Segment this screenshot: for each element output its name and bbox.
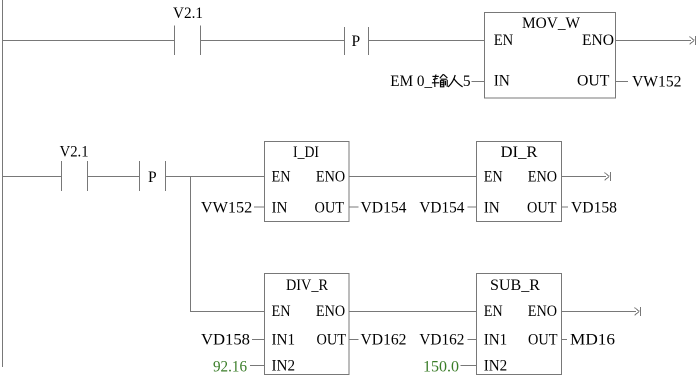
block DIV_R box — [265, 274, 350, 375]
svg-text:VW152: VW152 — [201, 200, 252, 217]
wire VW152 tick to I_DI IN — [254, 206, 265, 208]
arrow rung3 open head with bar — [635, 307, 641, 316]
wire contact V2.1 to contact P rung2 — [88, 176, 140, 178]
svg-text:IN: IN — [484, 200, 500, 217]
wire branch vertical down to rung3 — [190, 177, 192, 312]
block I_DI box — [265, 142, 350, 222]
wire I_DI OUT tick to VD154 — [349, 206, 359, 208]
svg-text:VW152: VW152 — [632, 74, 682, 91]
wire DIV_R ENO to SUB_R EN — [349, 311, 476, 313]
wire SUB_R OUT tick to MD16 — [562, 339, 568, 341]
svg-text:P: P — [352, 33, 361, 50]
wire VD158 tick to DIV_R IN1 — [252, 339, 265, 341]
wire I_DI ENO to DI_R EN — [349, 176, 476, 178]
svg-text:IN1: IN1 — [272, 332, 296, 349]
contact P rung1 (positive edge) — [345, 27, 369, 55]
wire contact P to I_DI EN with branch node — [166, 176, 265, 178]
svg-text:EN: EN — [494, 32, 514, 49]
svg-text:DI_R: DI_R — [501, 144, 539, 161]
contact P rung2 (positive edge) — [140, 161, 166, 191]
svg-text:VD154: VD154 — [361, 200, 407, 217]
wire rung1 rail to contact V2.1 — [2, 40, 174, 42]
wire DIV_R OUT tick to VD162 — [349, 339, 359, 341]
svg-text:VD162: VD162 — [361, 332, 407, 349]
svg-text:EN: EN — [272, 303, 291, 320]
svg-text:MOV_W: MOV_W — [522, 15, 580, 32]
svg-text:EM 0_: EM 0_ — [390, 73, 432, 90]
svg-text:IN1: IN1 — [484, 332, 508, 349]
block DI_R box — [477, 142, 562, 222]
wire contact P to MOV_W EN — [369, 40, 485, 42]
svg-text:ENO: ENO — [316, 303, 345, 320]
svg-text:EN: EN — [484, 169, 503, 186]
svg-text:5: 5 — [463, 73, 471, 90]
svg-text:V2.1: V2.1 — [60, 144, 89, 161]
wire EM 0_input5 tick to MOV_W IN — [472, 81, 485, 83]
wire 150.0 tick to SUB_R IN2 — [461, 365, 477, 367]
svg-text:150.0: 150.0 — [423, 359, 459, 376]
svg-text:VD162: VD162 — [419, 332, 464, 349]
block SUB_R box — [477, 274, 562, 375]
svg-text:VD158: VD158 — [201, 332, 250, 349]
arrow rung2 open head with bar — [605, 172, 611, 181]
arrow rung1 open head with bar — [690, 36, 696, 45]
svg-text:VD154: VD154 — [419, 200, 464, 217]
svg-text:MD16: MD16 — [570, 332, 615, 349]
svg-text:EN: EN — [484, 303, 503, 320]
svg-text:OUT: OUT — [317, 332, 347, 349]
wire VD162 tick to SUB_R IN1 — [468, 339, 477, 341]
svg-text:ENO: ENO — [316, 169, 345, 186]
glyph CJK shu (input) — [432, 74, 448, 87]
svg-text:SUB_R: SUB_R — [490, 277, 541, 294]
svg-text:V2.1: V2.1 — [173, 5, 203, 22]
wire SUB_R ENO to arrow — [562, 311, 637, 313]
svg-text:OUT: OUT — [577, 73, 610, 90]
contact V2.1 rung2 — [62, 161, 88, 191]
svg-text:OUT: OUT — [528, 332, 558, 349]
svg-text:ENO: ENO — [528, 303, 557, 320]
svg-text:EN: EN — [272, 169, 291, 186]
svg-text:DIV_R: DIV_R — [286, 277, 329, 294]
svg-text:VD158: VD158 — [571, 200, 617, 217]
svg-text:I_DI: I_DI — [293, 144, 319, 161]
svg-text:IN: IN — [494, 73, 510, 90]
left power rail — [2, 0, 4, 367]
wire MOV_W OUT tick to VW152 — [616, 81, 629, 83]
svg-text:OUT: OUT — [315, 200, 345, 217]
svg-text:IN: IN — [272, 200, 288, 217]
wire rung2 rail to contact V2.1 — [2, 176, 61, 178]
contact V2.1 rung1 — [175, 26, 201, 56]
svg-text:ENO: ENO — [528, 169, 557, 186]
wire MOV_W ENO to right arrow — [616, 40, 692, 42]
glyph CJK ru (enter) — [448, 75, 462, 87]
svg-text:IN2: IN2 — [484, 358, 508, 375]
wire 92.16 tick to DIV_R IN2 — [250, 365, 265, 367]
svg-text:92.16: 92.16 — [213, 359, 247, 376]
svg-text:IN2: IN2 — [272, 358, 296, 375]
wire branch to DIV_R EN — [190, 311, 264, 313]
svg-text:ENO: ENO — [582, 32, 614, 49]
block MOV_W box — [485, 13, 616, 99]
wire DI_R ENO to arrow — [562, 176, 607, 178]
svg-text:P: P — [148, 169, 157, 186]
wire VD154 tick to DI_R IN — [468, 206, 477, 208]
wire contact V2.1 to contact P rung1 — [201, 40, 345, 42]
svg-text:OUT: OUT — [527, 200, 557, 217]
wire DI_R OUT tick to VD158 — [562, 206, 569, 208]
